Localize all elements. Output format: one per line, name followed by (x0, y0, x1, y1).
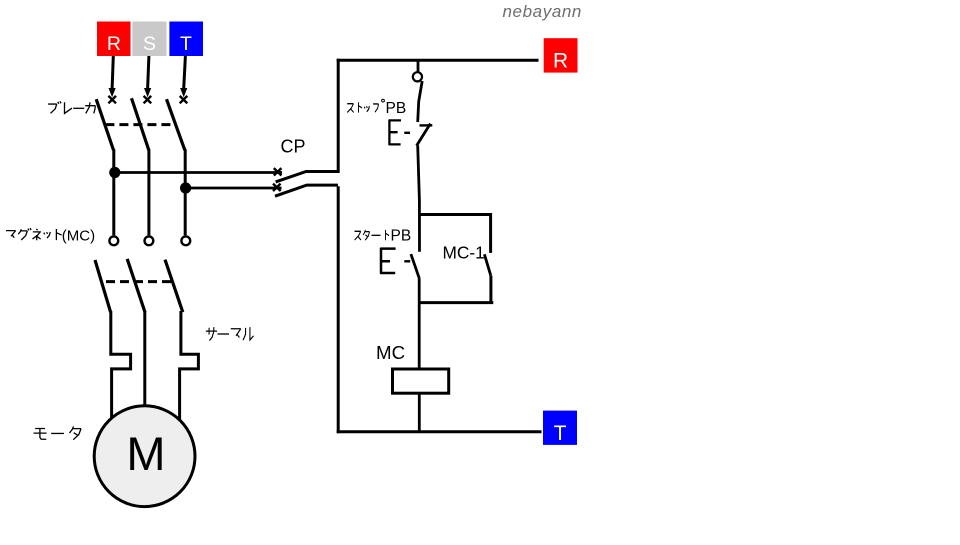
svg-text:R: R (553, 49, 568, 72)
svg-text:S: S (143, 33, 156, 55)
svg-text:CP: CP (281, 137, 306, 157)
svg-text:(MC): (MC) (62, 228, 95, 245)
svg-text:PB: PB (386, 100, 407, 117)
svg-text:M: M (126, 427, 165, 480)
svg-text:MC-1: MC-1 (443, 242, 485, 262)
svg-text:R: R (107, 33, 121, 55)
svg-text:nebayann: nebayann (503, 2, 582, 21)
svg-text:PB: PB (391, 228, 412, 245)
svg-text:T: T (554, 422, 567, 445)
svg-text:MC: MC (376, 342, 405, 363)
svg-text:T: T (180, 33, 192, 55)
